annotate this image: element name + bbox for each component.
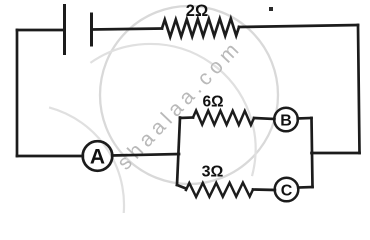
svg-text:C: C: [281, 183, 293, 200]
wire: meter B to right bar: [298, 117, 312, 120]
ammeter A circle: [83, 141, 113, 171]
meter C circle: [275, 178, 299, 202]
meter B circle: [274, 108, 298, 132]
wire: 3ohm to meter C: [253, 188, 275, 191]
node: left junction bar: [177, 118, 180, 186]
node: right junction bar vertical: [312, 118, 313, 187]
wire: right junction horizontal: [312, 152, 360, 155]
resistor R2 6ohm zigzag: [193, 111, 254, 126]
wire: battery to resistor 2ohm: [92, 29, 163, 30]
watermark circle arc 3: [49, 107, 124, 222]
wire: meter C to right bar: [298, 186, 312, 189]
resistor R3 3ohm zigzag: [186, 183, 253, 197]
watermark circle arc 1: [100, 6, 278, 184]
wire: bottom branch lead from bar to 3ohm: [177, 185, 186, 189]
resistor R1 2ohm zigzag: [162, 19, 239, 37]
wire: ammeter to parallel junction bar: [112, 154, 179, 156]
wire: bottom left horizontal to ammeter: [17, 155, 83, 158]
watermark circle arc 2: [90, 44, 255, 176]
ink speck top right: [269, 7, 273, 11]
battery cell plate short (right): [90, 14, 93, 45]
svg-text:2Ω: 2Ω: [186, 2, 208, 20]
svg-text:6Ω: 6Ω: [202, 94, 223, 111]
wire: resistor 2ohm to top-right corner: [239, 25, 358, 27]
wire: 6ohm to meter B: [254, 118, 274, 119]
wire: top-left corner, left vertical side: [16, 30, 19, 156]
battery cell plate long (left): [63, 6, 66, 54]
wire: top branch lead into 6ohm: [180, 116, 193, 119]
wire: right vertical side: [358, 25, 360, 153]
wire: top left horizontal to battery: [17, 29, 64, 32]
svg-text:A: A: [90, 146, 105, 169]
svg-text:B: B: [280, 113, 292, 130]
svg-text:3Ω: 3Ω: [202, 164, 224, 181]
